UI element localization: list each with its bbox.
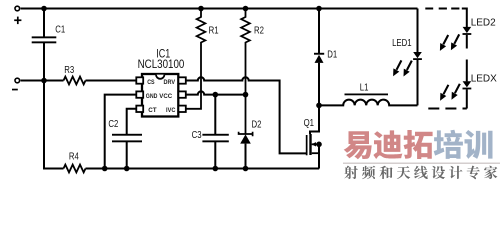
svg-text:R2: R2: [254, 25, 264, 36]
diode D1: [318, 9, 320, 106]
svg-text:R4: R4: [69, 151, 79, 162]
capacitor C2: [127, 109, 137, 169]
node C1 minus rail: [41, 78, 47, 84]
capacitor C1: [43, 9, 45, 81]
pin CT: [136, 106, 143, 112]
watermark underline: [343, 163, 500, 164]
node C1 top: [41, 6, 47, 12]
svg-text:CT: CT: [148, 107, 157, 114]
svg-text:C2: C2: [108, 118, 118, 129]
wire VCC row with hop: [186, 91, 246, 94]
svg-text:LEDX: LEDX: [471, 74, 497, 85]
LED2 emission arrows: [440, 35, 448, 51]
svg-text:CS: CS: [147, 79, 155, 86]
diode D2 zener: [239, 132, 253, 137]
pin IVC: [178, 106, 185, 112]
wire dashed LED2 to LEDX: [466, 60, 468, 82]
resistor R4: [64, 165, 86, 173]
wire GND pin to bottom rail: [105, 95, 137, 169]
LED1 emission arrows: [393, 60, 401, 76]
pin GND: [136, 91, 143, 97]
transistor Q1 MOSFET: [310, 105, 319, 134]
wire dashed top rail to LED2: [425, 8, 459, 10]
node R2 top: [243, 6, 249, 12]
svg-text:LED2: LED2: [471, 18, 496, 29]
node R1 top: [198, 6, 204, 12]
LED LED1: [417, 9, 419, 106]
svg-text:GND: GND: [146, 93, 158, 100]
watermark logo line 1: 易迪拓培训: [344, 130, 493, 159]
resistor R2: [241, 9, 250, 134]
pin VCC: [178, 91, 185, 97]
svg-text:VCC: VCC: [159, 93, 172, 100]
svg-text:R1: R1: [209, 25, 219, 36]
node C3 bottom: [213, 166, 219, 172]
wire left column down to bottom rail: [43, 81, 45, 169]
node GND bottom: [102, 166, 108, 172]
svg-text:L1: L1: [360, 81, 369, 92]
node VCC C3: [213, 92, 219, 98]
svg-text:C1: C1: [55, 24, 65, 35]
node D2 bottom: [243, 166, 249, 172]
wire DRV to Q1 gate with hops: [186, 77, 306, 153]
pin CS: [136, 77, 143, 83]
node D1 top: [316, 6, 322, 12]
watermark subtitle: 射频和天线设计专家: [344, 166, 497, 180]
svg-text:DRV: DRV: [164, 79, 176, 86]
LED LED2: [466, 35, 468, 49]
LED LEDX: [466, 89, 468, 108]
svg-text:D1: D1: [327, 49, 337, 60]
node VCC R2 D2: [243, 92, 249, 98]
wire top rail: [21, 8, 418, 10]
wire bottom rail with R4: [44, 168, 319, 169]
resistor R3: [64, 77, 86, 85]
node Q1 source body: [316, 142, 322, 148]
svg-text:LED1: LED1: [392, 37, 411, 48]
svg-text:D2: D2: [252, 118, 262, 129]
resistor R1: [186, 9, 205, 109]
node C2 bottom: [124, 166, 130, 172]
LEDX emission arrows: [440, 85, 448, 101]
terminal - input: [15, 78, 20, 83]
pin DRV: [178, 77, 185, 83]
capacitor C3: [214, 95, 216, 169]
svg-text:Q1: Q1: [304, 117, 314, 128]
wire minus rail with R3: [21, 80, 137, 82]
terminal + input: [15, 6, 20, 11]
svg-text:R3: R3: [64, 64, 74, 75]
svg-text:IVC: IVC: [166, 107, 175, 114]
inductor L1: [319, 100, 418, 106]
IC U1 body NCL30100: [142, 74, 178, 117]
node D1 L1 Q1: [316, 103, 322, 109]
svg-text:C3: C3: [192, 129, 202, 140]
wire dashed return from LEDX: [427, 108, 467, 110]
svg-text:NCL30100: NCL30100: [138, 58, 185, 71]
